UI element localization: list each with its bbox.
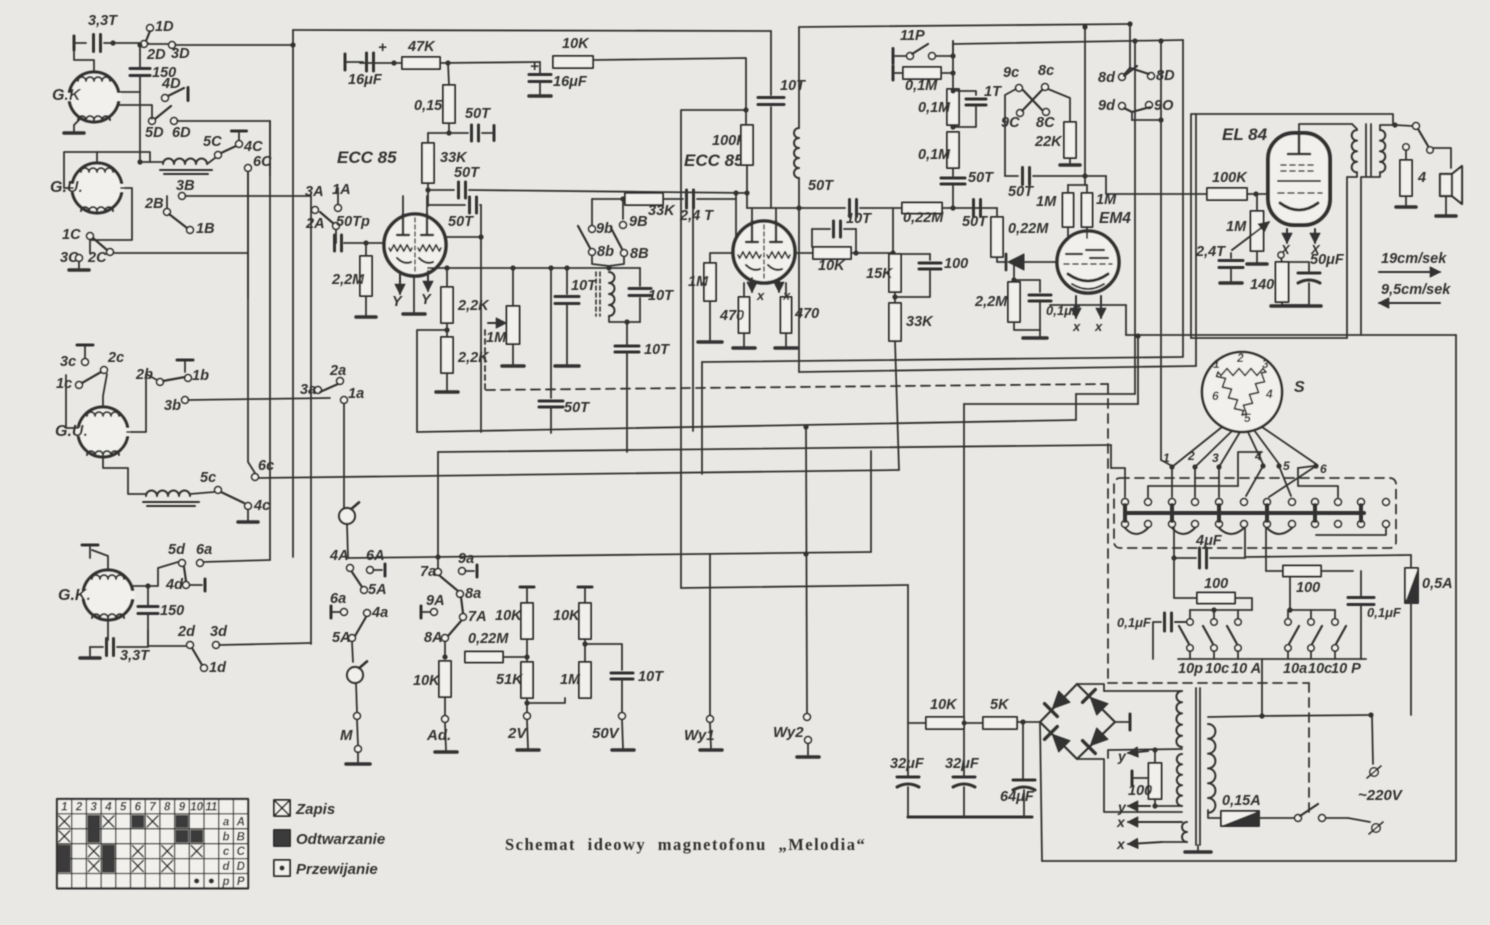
svg-text:100: 100	[944, 256, 968, 272]
label 8a	[465, 586, 481, 602]
node junction	[446, 130, 451, 135]
wire	[527, 720, 528, 748]
wire EL84 box	[1191, 114, 1393, 338]
wire top bus B	[799, 24, 1130, 27]
label Ad.	[426, 727, 451, 744]
label 100	[944, 256, 968, 272]
wire 150u	[145, 583, 150, 606]
wire trRb	[1310, 610, 1312, 618]
label 0,1M v2	[918, 147, 951, 163]
capacitor 50T c	[428, 197, 477, 213]
capacitor 0,1uF left	[1165, 613, 1191, 631]
legend odtw box	[274, 830, 290, 846]
svg-text:x: x	[1094, 319, 1103, 334]
legend przew text	[296, 861, 378, 878]
head G.U.	[69, 163, 124, 213]
label 4	[1417, 170, 1426, 186]
wire board f4	[1148, 486, 1238, 497]
wire	[1069, 158, 1071, 163]
contacts 2b 1b	[157, 375, 192, 386]
wire 6C down	[247, 172, 249, 298]
wire	[140, 161, 163, 163]
node junction	[290, 42, 295, 47]
label 50T eye	[968, 170, 994, 186]
resistor 2,2M eye	[1008, 282, 1020, 322]
svg-text:9d: 9d	[1098, 98, 1116, 114]
svg-text:2a: 2a	[329, 363, 346, 379]
wire v311b	[310, 196, 312, 644]
label 9d	[1098, 98, 1116, 114]
label 22K	[1034, 134, 1063, 150]
switch 8b	[578, 226, 627, 256]
label 4D	[161, 76, 181, 92]
wire trL2	[1213, 610, 1215, 619]
label 2,2M eye	[974, 294, 1008, 310]
wire L2 stem	[798, 208, 800, 372]
capacitor 10T fb	[812, 221, 856, 237]
svg-text:4μF: 4μF	[1195, 533, 1223, 549]
wire 01 s	[1153, 622, 1190, 659]
label X el1	[1280, 242, 1291, 257]
wire dashed box bottom	[1108, 682, 1309, 684]
wire	[1405, 196, 1407, 205]
wire mains sw	[1326, 817, 1348, 819]
wire	[964, 722, 984, 724]
tbar bridge	[1129, 714, 1132, 730]
wire 100bv	[1265, 528, 1267, 571]
node junction	[442, 654, 447, 659]
capacitor 32uF A	[897, 777, 919, 787]
node junction	[582, 641, 587, 646]
svg-text:Zapis: Zapis	[295, 801, 335, 818]
label 10c	[1205, 661, 1229, 677]
wire head right	[118, 91, 140, 93]
label X el2	[1310, 242, 1321, 257]
svg-text:50μF: 50μF	[1310, 252, 1345, 268]
wire eye heater X2	[1096, 296, 1106, 318]
wire	[785, 283, 787, 297]
svg-text:50T: 50T	[465, 106, 491, 122]
wire	[440, 62, 540, 63]
svg-text:ECC 85: ECC 85	[337, 148, 397, 167]
capacitor 4uF	[1174, 528, 1245, 568]
svg-text:10T: 10T	[648, 288, 674, 304]
tube ECC85 II	[733, 221, 795, 283]
bridge rectifier	[1040, 684, 1115, 759]
label 9O	[1154, 98, 1174, 114]
wire 1A up	[337, 188, 339, 204]
node pin5	[1276, 463, 1281, 468]
wire pin6 cross	[1269, 466, 1316, 497]
arrow x1	[1128, 817, 1182, 827]
wire	[795, 252, 813, 254]
wire gu2 btm	[103, 457, 146, 494]
wire wy1g	[710, 723, 711, 748]
capacitor 100	[895, 254, 941, 297]
svg-text:0,15: 0,15	[414, 98, 443, 114]
label 1b	[192, 368, 209, 384]
wire pin2 down	[1194, 467, 1196, 497]
wire B+ jog	[681, 110, 746, 588]
wire	[893, 253, 930, 255]
caption	[505, 835, 866, 854]
svg-text:470: 470	[719, 308, 744, 324]
levers trio L	[1179, 626, 1237, 644]
wire pot top	[510, 265, 515, 306]
svg-text:1d: 1d	[209, 660, 227, 676]
label 1M g2	[688, 274, 709, 290]
label 10K	[562, 36, 590, 52]
switch spk	[1413, 123, 1428, 146]
svg-text:2C: 2C	[87, 250, 107, 266]
power ground	[69, 268, 89, 272]
wire	[697, 198, 736, 200]
wire capleft	[90, 646, 103, 648]
label 50T	[465, 106, 491, 122]
wire pin4d	[1246, 466, 1263, 496]
svg-text:1M: 1M	[560, 672, 581, 688]
wire 100bd	[1289, 577, 1291, 610]
resistor 33K	[422, 143, 434, 183]
wire	[1067, 227, 1069, 240]
label 8B	[630, 246, 649, 262]
label 2B	[144, 196, 164, 212]
svg-text:4A: 4A	[329, 548, 349, 564]
capacitor 10T osc-right	[629, 268, 651, 322]
wire	[894, 292, 896, 302]
label 140	[1250, 277, 1274, 293]
switch M term	[354, 713, 361, 720]
node junction	[743, 107, 748, 112]
wire	[444, 697, 446, 715]
terminal Wy2	[804, 714, 811, 721]
terminal Ad	[442, 716, 449, 723]
svg-text:100K: 100K	[1212, 170, 1248, 186]
wire	[584, 587, 586, 603]
power ground	[1396, 205, 1416, 209]
svg-text:3b: 3b	[164, 398, 181, 414]
wire	[1017, 721, 1040, 723]
label 10T r	[648, 288, 674, 304]
power ground	[502, 364, 524, 368]
label 470 b	[794, 306, 819, 322]
wire	[104, 42, 148, 44]
wire gu2 t	[103, 374, 107, 407]
label 3,3T low	[120, 648, 150, 664]
legend odtw text	[296, 831, 385, 848]
label 10K fb	[818, 258, 846, 274]
wire 100b l	[1266, 570, 1283, 572]
svg-text:9,5cm/sek: 9,5cm/sek	[1381, 282, 1451, 298]
label 5K psu	[990, 697, 1010, 713]
svg-text:50T: 50T	[448, 214, 474, 230]
wire plate to tr	[1299, 124, 1352, 133]
node junction	[950, 205, 955, 210]
label 1d	[209, 660, 227, 676]
switch 2d 3d	[187, 642, 220, 649]
svg-text:3: 3	[1212, 451, 1219, 465]
wire v1085 B+	[1082, 25, 1087, 185]
label 8D	[1156, 68, 1175, 84]
wire eye heater X	[1071, 296, 1081, 318]
svg-text:8a: 8a	[465, 586, 481, 602]
svg-text:6: 6	[135, 802, 142, 814]
wire plate row	[747, 207, 800, 209]
node junction	[796, 205, 801, 210]
svg-text:8A: 8A	[424, 630, 443, 646]
svg-text:4D: 4D	[161, 76, 181, 92]
svg-text:0,22M: 0,22M	[468, 631, 509, 647]
svg-text:3: 3	[91, 802, 98, 814]
svg-text:4: 4	[1265, 387, 1273, 401]
switch 3b	[182, 397, 189, 404]
wire gk2 t	[92, 550, 108, 570]
wire bus drop	[292, 30, 294, 45]
resistor 1M div	[579, 662, 591, 698]
wire H588 psu feed	[681, 585, 908, 588]
label EM4	[1099, 210, 1131, 227]
label 220V	[1358, 787, 1404, 804]
power ground 1M	[1247, 262, 1267, 266]
wire	[446, 323, 448, 337]
switch 5C 4C	[215, 131, 247, 158]
label 10T bottom	[644, 342, 670, 358]
resistor 33K osc	[625, 193, 663, 205]
wire core gnd	[1197, 845, 1199, 850]
node junction	[803, 424, 808, 556]
label 4c low	[253, 498, 270, 514]
label 8C	[1036, 115, 1055, 131]
wire	[428, 132, 449, 134]
svg-text:10 A: 10 A	[1231, 661, 1261, 677]
switch 9A	[421, 606, 437, 618]
wire 1T link	[953, 91, 976, 95]
svg-text:1b: 1b	[192, 368, 209, 384]
wire	[953, 106, 976, 127]
svg-text:10K: 10K	[930, 697, 958, 713]
wire bus taps	[1125, 505, 1361, 521]
svg-text:4c: 4c	[253, 498, 270, 514]
wire v627	[626, 356, 628, 452]
power ground	[436, 390, 458, 394]
label 64uF	[1000, 789, 1035, 805]
svg-text:2,2M: 2,2M	[331, 272, 365, 288]
svg-text:33K: 33K	[440, 150, 468, 166]
svg-text:50T: 50T	[962, 214, 988, 230]
switch 6c low	[252, 474, 259, 481]
label M	[340, 727, 353, 744]
svg-text:10K: 10K	[818, 258, 846, 274]
lever 2b	[163, 377, 185, 381]
arrow 9,5cm	[1379, 298, 1440, 308]
resistor 1M pot	[507, 306, 520, 344]
switch 2B	[164, 193, 186, 216]
wire gnd join	[1282, 304, 1309, 306]
svg-text:3d: 3d	[210, 624, 228, 640]
svg-text:33K: 33K	[648, 203, 676, 219]
power ground	[356, 315, 376, 319]
capacitor 33T2	[107, 639, 114, 656]
label 1M el84	[1226, 219, 1247, 235]
wire tagboard box	[1114, 478, 1396, 548]
power ground 2V	[517, 748, 539, 752]
wire	[74, 42, 86, 44]
wire f4b	[1238, 452, 1262, 486]
wire	[357, 752, 359, 762]
svg-text:50T: 50T	[1008, 184, 1034, 200]
node pin3	[1216, 464, 1221, 469]
transformer output	[1352, 124, 1386, 176]
svg-text:P: P	[237, 876, 245, 888]
wire row R1	[428, 265, 640, 270]
wire wy2 v	[806, 427, 807, 713]
wire	[893, 66, 903, 80]
wire psu gnd rail	[908, 816, 1032, 819]
motor S	[1202, 352, 1282, 432]
label x eye	[1072, 319, 1081, 334]
label 9b	[596, 221, 613, 237]
wire	[1308, 300, 1310, 305]
wire f5c	[1298, 466, 1314, 468]
wire head top	[96, 152, 98, 163]
capacitor 16uF input	[367, 39, 388, 71]
plug upper	[1367, 766, 1381, 778]
wire head right2	[119, 105, 152, 119]
head G.K top	[66, 72, 121, 122]
label 2V	[507, 725, 528, 742]
wire plg	[1348, 818, 1370, 822]
power ground M	[346, 762, 370, 766]
wire v1111	[1110, 445, 1112, 468]
wire	[1086, 227, 1088, 238]
terminal Wy2b	[805, 737, 812, 744]
svg-text:10: 10	[190, 802, 203, 814]
label 10K 2v	[495, 608, 523, 624]
fuse 0,15A	[1221, 811, 1259, 826]
resistor 10K ad	[439, 661, 451, 697]
resistor 100K v	[741, 125, 753, 165]
wire	[710, 253, 733, 263]
capacitor 16uF 2	[529, 58, 551, 82]
wire head frame	[64, 152, 150, 188]
wire	[148, 43, 168, 45]
label 1M eyeL	[1036, 194, 1057, 210]
wire cathode Y	[395, 274, 405, 294]
capacitor 50T eye	[941, 178, 965, 184]
wire fb path	[811, 229, 813, 247]
wire 2d l	[148, 632, 186, 646]
svg-text:1T: 1T	[984, 84, 1002, 100]
resistor 10K fb	[813, 247, 851, 259]
power ground	[529, 94, 551, 98]
wire	[709, 301, 711, 340]
wire 5A down	[352, 642, 353, 662]
power ground	[64, 131, 84, 135]
lever c	[1124, 108, 1132, 112]
label 1M eyeR	[1096, 192, 1117, 208]
svg-text:2: 2	[1187, 449, 1195, 463]
contacts 4A 6A	[347, 564, 385, 576]
label 33K det	[906, 314, 934, 330]
head G.K.2	[80, 570, 135, 620]
svg-text:50T: 50T	[454, 165, 480, 181]
wire H2	[438, 445, 1111, 452]
switch 1D	[141, 25, 154, 48]
wire bus L2	[799, 366, 1196, 372]
wire	[427, 183, 429, 206]
wire	[1282, 262, 1309, 272]
label 5C	[203, 134, 222, 150]
wire	[1308, 283, 1310, 300]
node junction	[137, 42, 142, 47]
label 0,22M v	[1008, 221, 1049, 237]
label 33K osc	[648, 203, 676, 219]
wire cath arrows	[1282, 229, 1320, 243]
wire hv2 b	[1155, 805, 1182, 807]
label 3b2	[164, 398, 181, 414]
wire v909	[907, 585, 909, 723]
svg-text:B: B	[237, 831, 245, 843]
node junction	[606, 265, 611, 270]
svg-text:7A: 7A	[468, 609, 487, 625]
node junction	[1368, 712, 1373, 717]
resistor 2,2K b	[441, 337, 453, 373]
head G.U.2	[75, 407, 130, 457]
wire psu minus	[1040, 722, 1042, 861]
wire	[1024, 261, 1058, 263]
svg-text:p: p	[222, 876, 230, 888]
resistor 5K psu	[983, 717, 1017, 729]
wire 100b right	[1321, 570, 1353, 572]
label Y	[392, 294, 403, 310]
wire 50vt	[585, 644, 622, 670]
wire v248	[248, 172, 255, 473]
wire 3d r	[219, 643, 311, 645]
wire hum bottom	[1154, 799, 1156, 806]
wire fb tap	[417, 330, 447, 432]
diode eye	[1006, 254, 1024, 270]
svg-text:Wy2: Wy2	[773, 724, 804, 741]
svg-text:2V: 2V	[507, 725, 528, 742]
resistor 15K	[889, 254, 901, 292]
label 0,22M div	[468, 631, 509, 647]
capacitor 10T bottom	[615, 346, 639, 352]
wire	[851, 252, 893, 254]
label 50T fb	[564, 400, 590, 416]
svg-text:x: x	[782, 288, 791, 303]
svg-text:5A: 5A	[368, 582, 387, 598]
svg-text:2c: 2c	[107, 350, 124, 366]
wire v1138	[1135, 333, 1140, 404]
svg-text:32μF: 32μF	[945, 756, 980, 772]
wire fan 1	[1172, 427, 1222, 467]
svg-text:ECC 85: ECC 85	[684, 151, 744, 170]
label 3A 1A	[305, 182, 351, 200]
legend zapis box	[274, 800, 290, 816]
wire	[807, 744, 809, 755]
power ground Wy1	[700, 748, 722, 752]
svg-text:G.K: G.K	[52, 87, 82, 104]
label 2d 3d	[177, 624, 228, 640]
wire anode row	[360, 62, 402, 64]
wire trL	[1190, 610, 1252, 619]
wire h1076c	[1076, 393, 1135, 395]
wire cathode Y2	[423, 271, 433, 291]
wire cath centre gnd	[413, 276, 415, 312]
wire 32b u	[963, 725, 965, 776]
diode b1	[1045, 690, 1071, 716]
svg-text:32μF: 32μF	[890, 756, 925, 772]
